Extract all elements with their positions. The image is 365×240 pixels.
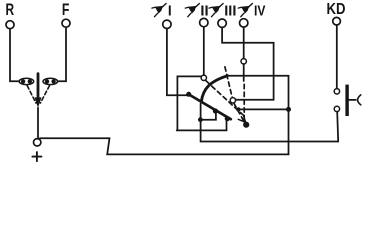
wire KD bbox=[336, 25, 338, 88]
top feed wire bbox=[227, 75, 288, 77]
svg-text:R: R bbox=[6, 0, 15, 19]
button contact upper bbox=[334, 89, 339, 94]
flash symbol IV bbox=[238, 4, 252, 17]
wire I bbox=[167, 29, 189, 96]
common wire bbox=[238, 108, 288, 110]
svg-text:II: II bbox=[200, 3, 208, 20]
dashed position III lower bbox=[234, 103, 244, 121]
contact II bbox=[201, 75, 206, 80]
svg-text:III: III bbox=[224, 3, 236, 20]
wire W1 to D3 bbox=[200, 113, 216, 120]
wire D3 down bbox=[200, 104, 202, 142]
terminal II bbox=[200, 18, 208, 26]
junction bbox=[286, 107, 291, 112]
wire button lower bbox=[337, 112, 338, 142]
button stem bbox=[349, 99, 356, 101]
wire contact II bbox=[177, 76, 201, 130]
node D1 bbox=[186, 92, 191, 97]
terminal III bbox=[218, 19, 226, 27]
svg-text:I: I bbox=[168, 3, 172, 20]
svg-text:IV: IV bbox=[254, 3, 265, 20]
contact oval left bbox=[19, 78, 34, 84]
node D3 bbox=[198, 117, 203, 122]
terminal F bbox=[62, 19, 70, 27]
flash symbol II bbox=[185, 4, 199, 17]
wire III bbox=[222, 28, 274, 100]
dashed position II bbox=[206, 81, 242, 115]
svg-text:KD: KD bbox=[327, 1, 346, 18]
dashed position IV bbox=[243, 84, 245, 120]
flash symbol I bbox=[152, 4, 166, 17]
contact oval right bbox=[43, 78, 58, 84]
reversing wiper arrow bbox=[37, 74, 40, 99]
rail wire bbox=[177, 121, 227, 131]
button contact lower bbox=[334, 106, 339, 111]
bus riser bbox=[288, 76, 290, 155]
wiper arrowhead bbox=[238, 115, 245, 123]
bottom wire to button bbox=[201, 141, 339, 143]
wire wiper to battery bbox=[37, 108, 39, 139]
dashed position right bbox=[40, 86, 49, 103]
pivot bbox=[243, 122, 249, 128]
node W2 bbox=[225, 116, 230, 121]
button bar bbox=[345, 85, 348, 116]
dashed position left bbox=[27, 86, 36, 103]
rotary wiper bar bbox=[189, 95, 231, 120]
svg-text:F: F bbox=[62, 0, 70, 19]
wire R to left contact bbox=[10, 29, 19, 81]
node W1 bbox=[213, 108, 218, 113]
rotary arc bbox=[201, 76, 227, 102]
contact III bbox=[230, 98, 235, 103]
battery terminal bbox=[34, 139, 41, 146]
contact IV stub bbox=[243, 64, 245, 81]
contact IV bbox=[241, 59, 246, 64]
battery wire to bus bbox=[40, 138, 289, 154]
dashed position III upper bbox=[225, 67, 232, 98]
terminal R bbox=[6, 21, 14, 29]
plus sign bbox=[32, 152, 41, 161]
flash symbol III bbox=[209, 4, 223, 17]
terminal KD bbox=[333, 17, 341, 25]
wire IV bbox=[243, 27, 245, 58]
terminal I bbox=[163, 20, 171, 28]
button knob bbox=[358, 95, 361, 105]
wire II bbox=[203, 27, 205, 75]
wire F to right contact bbox=[58, 27, 67, 81]
terminal IV bbox=[240, 19, 248, 27]
